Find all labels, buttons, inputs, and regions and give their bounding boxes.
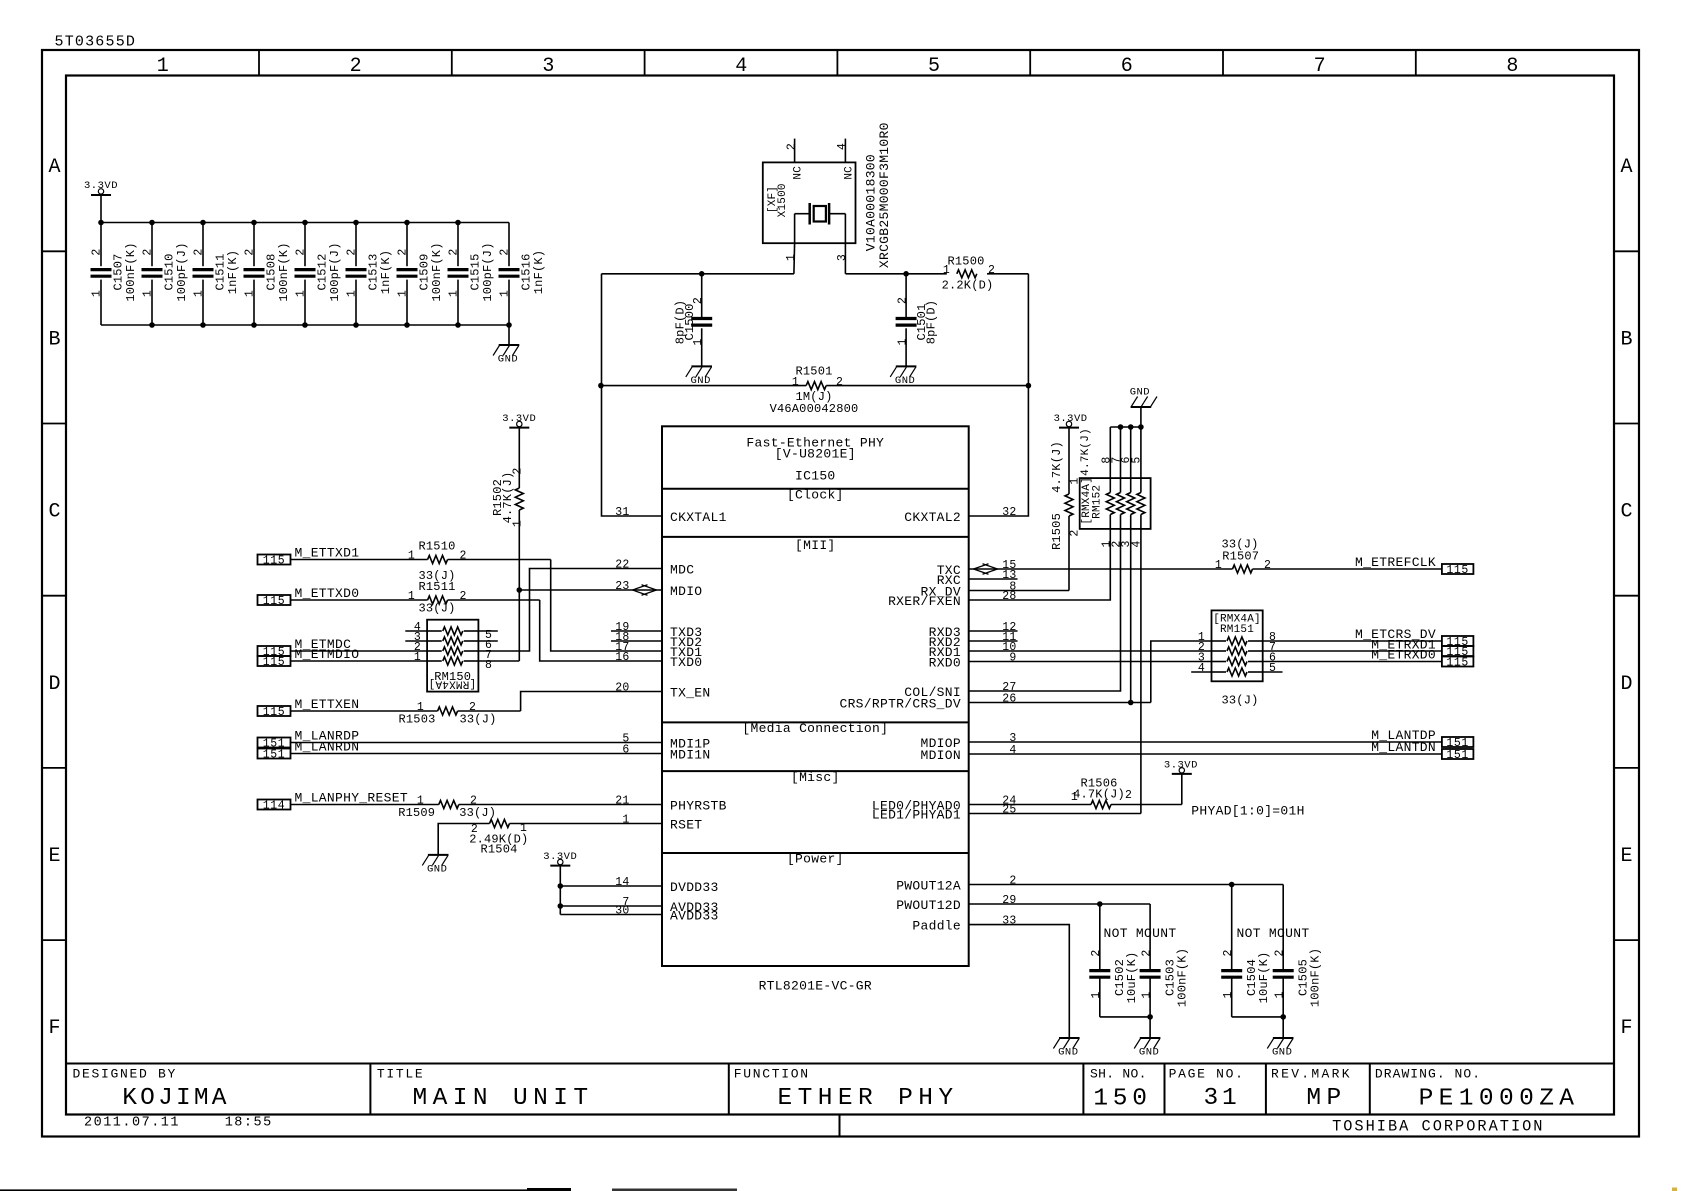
svg-text:31: 31: [1203, 1085, 1240, 1112]
svg-text:CRS/RPTR/CRS_DV: CRS/RPTR/CRS_DV: [839, 697, 961, 712]
resistor R1502: [491, 428, 525, 590]
resistor R1511: [408, 580, 467, 616]
svg-text:RXER/FXEN: RXER/FXEN: [888, 594, 961, 609]
bottom scan artifact: [527, 1188, 571, 1191]
capacitor C1516: [499, 223, 547, 326]
wire RXC stub: [969, 578, 1018, 580]
svg-text:33(J): 33(J): [459, 713, 496, 727]
svg-text:PHYAD[1:0]=01H: PHYAD[1:0]=01H: [1191, 804, 1304, 819]
svg-text:3: 3: [542, 55, 554, 78]
wire crystal bus right (XTAL2 net): [846, 273, 947, 275]
svg-text:MDIO: MDIO: [670, 584, 702, 599]
wire RXD1 to RM151: [969, 650, 1212, 652]
svg-text:1: 1: [1140, 991, 1153, 998]
svg-text:V10A00018300: V10A00018300: [863, 154, 878, 251]
junction dots crystal buses: [598, 271, 1031, 388]
power symbol 3.3VD (R1506): [1172, 773, 1192, 775]
svg-text:C: C: [1620, 501, 1632, 524]
svg-text:2: 2: [1222, 949, 1235, 956]
node M_ETMDC port 115: [258, 646, 291, 656]
svg-text:LED1/PHYAD1: LED1/PHYAD1: [872, 808, 961, 823]
svg-text:4.7K(J): 4.7K(J): [501, 472, 515, 524]
svg-text:KOJIMA: KOJIMA: [122, 1085, 229, 1112]
svg-text:1nF(K): 1nF(K): [532, 250, 546, 294]
svg-text:1: 1: [397, 290, 410, 297]
svg-text:2: 2: [397, 248, 410, 255]
wire RXD2 stub: [969, 640, 1018, 642]
svg-text:NC: NC: [793, 166, 805, 180]
svg-text:R1503: R1503: [398, 713, 435, 727]
capacitor C1513: [346, 223, 394, 326]
wire C1504/C1505 gnd bus: [1232, 1014, 1286, 1038]
svg-text:MDION: MDION: [920, 748, 961, 763]
resistor R1506: [1071, 777, 1132, 809]
svg-text:115: 115: [263, 554, 286, 567]
wire RXD0 to RM151: [969, 661, 1212, 663]
svg-text:GND: GND: [1139, 1047, 1159, 1059]
svg-text:FUNCTION: FUNCTION: [734, 1067, 810, 1082]
svg-text:2: 2: [988, 264, 995, 277]
wire CKXTAL2 net: [969, 274, 1029, 516]
svg-text:6: 6: [622, 744, 629, 757]
svg-text:4.7K(J): 4.7K(J): [1073, 788, 1125, 802]
svg-text:R1505: R1505: [1050, 513, 1064, 550]
node M_LANPHY_RESET port 114: [258, 800, 291, 810]
svg-text:4: 4: [1009, 744, 1016, 757]
svg-text:1: 1: [1273, 991, 1286, 998]
IC150 left pin names: [670, 510, 727, 924]
wire TXD3 stub: [611, 630, 662, 632]
svg-text:D: D: [1620, 673, 1632, 696]
node M_ETTXEN port 115: [258, 706, 291, 716]
row scale ticks left/right: [42, 251, 1639, 940]
bidir diamond MDIO: [633, 585, 648, 596]
svg-text:2: 2: [91, 248, 104, 255]
title block top line: [66, 1063, 1614, 1065]
svg-text:150: 150: [1093, 1086, 1151, 1113]
capacitor C1502: [1089, 904, 1139, 1017]
svg-text:2: 2: [1009, 875, 1016, 888]
svg-text:21: 21: [615, 795, 629, 808]
svg-text:2: 2: [1069, 529, 1082, 536]
svg-text:4.7K(J): 4.7K(J): [1080, 428, 1092, 476]
svg-text:1: 1: [142, 290, 155, 297]
resistor R1500: [942, 255, 996, 293]
resistor R1501: [770, 365, 859, 416]
svg-text:GND: GND: [498, 354, 518, 366]
ground (R1504): [428, 854, 449, 856]
svg-text:D: D: [48, 673, 60, 696]
capacitor C1501: [896, 274, 939, 367]
svg-text:100pF(J): 100pF(J): [481, 242, 495, 301]
capacitor C1503: [1140, 904, 1190, 1017]
svg-text:Paddle: Paddle: [912, 919, 961, 934]
svg-text:3: 3: [836, 254, 849, 261]
svg-text:1: 1: [414, 651, 421, 664]
svg-text:3.3VD: 3.3VD: [1054, 413, 1088, 425]
wire COL/SNI net: [969, 529, 1121, 691]
crystal X1500: [763, 122, 892, 274]
svg-text:1: 1: [295, 290, 308, 297]
svg-text:1: 1: [91, 290, 104, 297]
wire PWOUT12A net: [969, 884, 1283, 886]
svg-text:1: 1: [896, 338, 909, 345]
svg-text:1: 1: [157, 55, 169, 78]
svg-text:8: 8: [1506, 55, 1518, 78]
ground (C1503): [1140, 1037, 1161, 1039]
svg-text:DRAWING. NO.: DRAWING. NO.: [1375, 1067, 1481, 1082]
svg-text:7: 7: [1314, 55, 1326, 78]
svg-text:V46A00042800: V46A00042800: [770, 402, 859, 416]
svg-text:A: A: [48, 156, 60, 179]
wire TXD2 stub: [611, 640, 662, 642]
svg-text:PHYRSTB: PHYRSTB: [670, 799, 727, 814]
svg-text:CKXTAL1: CKXTAL1: [670, 510, 727, 525]
node M_ETMDIO port 115: [258, 656, 291, 666]
svg-text:1: 1: [193, 290, 206, 297]
svg-text:A: A: [1620, 156, 1632, 179]
svg-text:1nF(K): 1nF(K): [379, 250, 393, 294]
wire M_ETTXD0 to TXD0: [291, 599, 428, 601]
svg-text:2: 2: [142, 248, 155, 255]
svg-text:M_ETTXD1: M_ETTXD1: [295, 546, 360, 561]
wire 3.3VD to DVDD33/AVDD33: [558, 866, 663, 915]
capacitor C1508: [244, 223, 292, 326]
resistor network RM152: [1080, 428, 1151, 547]
svg-text:100nF(K): 100nF(K): [277, 242, 291, 301]
svg-text:F: F: [1620, 1017, 1632, 1040]
svg-text:2: 2: [499, 248, 512, 255]
svg-text:2: 2: [193, 248, 206, 255]
svg-text:R1500: R1500: [947, 255, 984, 269]
svg-text:100pF(J): 100pF(J): [175, 242, 189, 301]
svg-text:114: 114: [263, 799, 286, 812]
wire M_LANRDN to MDI1N: [291, 753, 663, 755]
svg-text:DESIGNED BY: DESIGNED BY: [73, 1067, 178, 1082]
svg-text:16: 16: [615, 651, 629, 664]
svg-text:33(J): 33(J): [418, 602, 455, 616]
svg-text:[Clock]: [Clock]: [787, 488, 844, 503]
svg-text:23: 23: [615, 580, 629, 593]
svg-text:R1507: R1507: [1222, 549, 1259, 563]
svg-text:XRCGB25M000F3M10R0: XRCGB25M000F3M10R0: [877, 122, 892, 268]
svg-text:SH. NO.: SH. NO.: [1090, 1067, 1147, 1082]
svg-text:PAGE NO.: PAGE NO.: [1169, 1067, 1245, 1082]
capacitor C1509: [397, 223, 445, 326]
ground (C1501): [896, 365, 917, 367]
wire CRS_DV net: [969, 702, 1151, 704]
wire M_LANRDP to MDI1P: [291, 742, 663, 744]
ground (cap bank): [493, 325, 519, 366]
wire M_ETTXEN to TX_EN: [291, 710, 438, 712]
svg-text:2: 2: [1264, 559, 1271, 572]
wire 3.3VD top bus: [101, 222, 509, 224]
wire MDC net: [478, 569, 662, 652]
svg-text:B: B: [1620, 328, 1632, 351]
svg-text:20: 20: [615, 682, 629, 695]
svg-text:100nF(K): 100nF(K): [1175, 948, 1189, 1007]
svg-text:10uF(K): 10uF(K): [1125, 952, 1139, 1004]
wire M_LANPHY_RESET to PHYRSTB: [291, 804, 439, 806]
svg-text:1: 1: [408, 550, 415, 563]
svg-text:10uF(K): 10uF(K): [1257, 952, 1271, 1004]
svg-text:1: 1: [785, 254, 798, 261]
svg-text:RSET: RSET: [670, 818, 702, 833]
row letters A-F: [48, 156, 1632, 1040]
svg-text:5T03655D: 5T03655D: [55, 34, 137, 51]
svg-text:X1500: X1500: [777, 183, 789, 217]
svg-text:2: 2: [1273, 949, 1286, 956]
wire RM152 top bus to GND: [1110, 407, 1143, 478]
svg-text:GND: GND: [1130, 387, 1150, 399]
svg-text:1: 1: [346, 290, 359, 297]
wire MDIO net: [519, 589, 662, 591]
wire PWOUT12D net: [969, 903, 1150, 905]
svg-text:2: 2: [692, 297, 705, 304]
svg-text:4.7K(J): 4.7K(J): [1050, 441, 1064, 493]
svg-text:E: E: [48, 845, 60, 868]
svg-text:[Power]: [Power]: [787, 852, 844, 867]
svg-text:AVDD33: AVDD33: [670, 909, 719, 924]
wire MDIOP to M_LANTDP: [969, 741, 1442, 743]
svg-text:4: 4: [836, 143, 849, 150]
svg-text:100nF(K): 100nF(K): [430, 242, 444, 301]
svg-text:F: F: [48, 1017, 60, 1040]
svg-text:1: 1: [943, 264, 950, 277]
svg-text:MDC: MDC: [670, 563, 694, 578]
svg-text:PWOUT12D: PWOUT12D: [896, 898, 961, 913]
node M_LANRDP port 151: [258, 738, 291, 748]
svg-text:151: 151: [1446, 749, 1469, 762]
capacitor C1512: [295, 223, 343, 326]
IC150 right pin numbers: [1002, 506, 1016, 928]
svg-text:32: 32: [1002, 506, 1016, 519]
svg-text:33(J): 33(J): [1221, 694, 1258, 708]
wire MDION to M_LANTDN: [969, 753, 1442, 755]
svg-text:115: 115: [263, 595, 286, 608]
node M_ETTXD0 port 115: [258, 595, 291, 605]
svg-text:RXD0: RXD0: [929, 656, 961, 671]
svg-text:5: 5: [1269, 662, 1276, 675]
wire RSET net: [510, 823, 663, 825]
wire C1502/C1503 gnd bus: [1100, 1014, 1153, 1038]
svg-text:2011.07.11: 2011.07.11: [84, 1116, 180, 1131]
svg-text:1: 1: [1071, 791, 1078, 804]
capacitor C1504: [1221, 885, 1271, 1017]
svg-text:MP: MP: [1306, 1085, 1346, 1112]
svg-text:2: 2: [244, 248, 257, 255]
svg-text:100nF(K): 100nF(K): [1308, 948, 1322, 1007]
svg-text:22: 22: [615, 559, 629, 572]
wire M_ETCRS_DV: [1263, 640, 1442, 642]
svg-text:R1511: R1511: [418, 580, 455, 594]
svg-text:PWOUT12A: PWOUT12A: [896, 879, 961, 894]
svg-text:1: 1: [448, 290, 461, 297]
svg-text:NC: NC: [843, 166, 855, 180]
svg-text:[MII]: [MII]: [795, 538, 836, 553]
wire M_ETTXD1 to TXD1: [291, 559, 428, 561]
svg-text:NOT MOUNT: NOT MOUNT: [1237, 926, 1310, 941]
svg-text:100pF(J): 100pF(J): [328, 242, 342, 301]
svg-text:TX_EN: TX_EN: [670, 686, 711, 701]
svg-text:8pF(D): 8pF(D): [925, 300, 939, 344]
svg-text:2: 2: [350, 55, 362, 78]
resistor R1504: [469, 820, 528, 857]
svg-text:GND: GND: [1272, 1047, 1292, 1059]
svg-text:TXD0: TXD0: [670, 655, 702, 670]
svg-text:R1504: R1504: [480, 843, 517, 857]
svg-text:1nF(K): 1nF(K): [226, 250, 240, 294]
svg-text:TITLE: TITLE: [377, 1067, 425, 1082]
ground (C1500): [691, 365, 712, 367]
svg-text:26: 26: [1002, 693, 1016, 706]
resistor R1510: [408, 539, 467, 583]
ground (Paddle): [1059, 1037, 1080, 1039]
capacitor C1511: [193, 223, 241, 326]
wire R1501 bus: [601, 385, 806, 387]
svg-text:4: 4: [735, 55, 747, 78]
svg-text:3.3VD: 3.3VD: [84, 180, 118, 192]
svg-text:3.3VD: 3.3VD: [543, 851, 577, 863]
power symbol 3.3VD (DVDD): [543, 851, 577, 866]
svg-text:DVDD33: DVDD33: [670, 880, 719, 895]
svg-text:33: 33: [1002, 915, 1016, 928]
svg-text:M_ETTXEN: M_ETTXEN: [295, 697, 360, 712]
ground (C1505): [1273, 1037, 1294, 1039]
svg-text:M_LANPHY_RESET: M_LANPHY_RESET: [295, 791, 408, 806]
column scale ticks top: [259, 50, 1416, 76]
svg-text:[V-U8201E]: [V-U8201E]: [775, 447, 856, 462]
capacitor C1510: [142, 223, 190, 326]
capacitor C1507: [91, 223, 139, 326]
svg-text:29: 29: [1002, 894, 1016, 907]
wire M_ETMDC to RM150: [291, 650, 428, 652]
resistor R1507: [1215, 538, 1271, 574]
svg-text:18:55: 18:55: [225, 1116, 273, 1131]
capacitor C1515: [448, 223, 496, 326]
svg-text:33(J): 33(J): [459, 806, 496, 820]
svg-text:1: 1: [499, 290, 512, 297]
svg-text:B: B: [48, 328, 60, 351]
wire TXC net: [969, 568, 1233, 570]
capacitor C1500: [674, 274, 713, 367]
svg-text:TOSHIBA CORPORATION: TOSHIBA CORPORATION: [1332, 1118, 1544, 1136]
resistor R1503: [398, 701, 496, 727]
svg-text:2: 2: [785, 143, 798, 150]
svg-text:NOT MOUNT: NOT MOUNT: [1104, 926, 1177, 941]
svg-text:1: 1: [792, 376, 799, 389]
column numbers 1-8: [157, 55, 1519, 78]
svg-text:2: 2: [896, 297, 909, 304]
svg-text:CKXTAL2: CKXTAL2: [904, 510, 961, 525]
svg-text:PE1000ZA: PE1000ZA: [1419, 1086, 1580, 1113]
title block bottom line: [66, 1114, 1614, 1116]
wire M_ETMDIO to RM150: [291, 660, 428, 662]
svg-text:1: 1: [622, 814, 629, 827]
svg-text:R1510: R1510: [418, 539, 455, 553]
svg-text:IC150: IC150: [795, 469, 836, 484]
svg-text:2.2K(D): 2.2K(D): [942, 279, 994, 293]
svg-text:C1500: C1500: [683, 303, 697, 340]
wire GND bottom bus: [101, 324, 509, 326]
resistor R1505 pullup: [1050, 428, 1082, 591]
svg-text:4: 4: [1198, 662, 1205, 675]
wire Paddle to GND: [969, 925, 1070, 1038]
svg-text:R1501: R1501: [795, 365, 832, 379]
svg-text:E: E: [1620, 845, 1632, 868]
node M_LANRDN port 151: [258, 749, 291, 759]
svg-text:1: 1: [1215, 559, 1222, 572]
svg-text:3.3VD: 3.3VD: [1164, 760, 1198, 772]
svg-text:115: 115: [263, 656, 286, 669]
svg-text:2: 2: [1125, 789, 1132, 802]
svg-text:2: 2: [1090, 949, 1103, 956]
svg-text:2: 2: [448, 248, 461, 255]
power symbol 3.3VD (R1502): [502, 413, 536, 428]
svg-text:REV.MARK: REV.MARK: [1271, 1067, 1352, 1082]
svg-text:[Misc]: [Misc]: [791, 770, 840, 785]
svg-text:115: 115: [263, 706, 286, 719]
wire RXER/FXEN net: [969, 529, 1111, 600]
wire RXD3 stub: [969, 630, 1018, 632]
svg-text:RTL8201E-VC-GR: RTL8201E-VC-GR: [759, 979, 872, 994]
svg-text:100nF(K): 100nF(K): [124, 242, 138, 301]
power symbol 3.3VD (R1505): [1059, 427, 1079, 429]
svg-text:M_ETREFCLK: M_ETREFCLK: [1355, 555, 1436, 570]
svg-text:M_ETRXD0: M_ETRXD0: [1371, 648, 1436, 663]
svg-text:9: 9: [1009, 652, 1016, 665]
bidir diamond TXC: [974, 564, 989, 575]
svg-text:M_ETMDIO: M_ETMDIO: [295, 647, 360, 662]
svg-text:R1509: R1509: [398, 806, 435, 820]
capacitor C1505: [1273, 885, 1323, 1017]
resistor network RM150: [405, 620, 498, 692]
wire LED0/PHYAD0 net: [969, 804, 1091, 806]
svg-text:M_LANRDN: M_LANRDN: [295, 740, 360, 755]
ground (RM152): [1131, 406, 1152, 408]
power symbol 3.3VD (cap bank): [84, 180, 118, 222]
junction dots cap bank: [98, 220, 512, 328]
svg-text:[Media Connection]: [Media Connection]: [742, 721, 888, 736]
svg-text:MAIN UNIT: MAIN UNIT: [413, 1085, 594, 1112]
svg-text:2: 2: [460, 550, 467, 563]
svg-text:[RMX4A]: [RMX4A]: [428, 677, 476, 689]
svg-text:6: 6: [1121, 55, 1133, 78]
svg-text:GND: GND: [1058, 1047, 1078, 1059]
wire M_ETRXD1: [1263, 650, 1442, 652]
svg-text:M_ETTXD0: M_ETTXD0: [295, 586, 360, 601]
wire RX_DV net: [969, 590, 1069, 592]
svg-text:151: 151: [263, 748, 286, 761]
svg-text:25: 25: [1002, 804, 1016, 817]
IC150 left pin numbers: [615, 506, 629, 918]
svg-text:RM152: RM152: [1091, 485, 1103, 519]
svg-text:2: 2: [1140, 949, 1153, 956]
svg-text:5: 5: [928, 55, 940, 78]
svg-text:MDI1N: MDI1N: [670, 748, 711, 763]
svg-text:2: 2: [295, 248, 308, 255]
svg-text:M_LANTDN: M_LANTDN: [1371, 740, 1436, 755]
node M_ETTXD1 port 115: [258, 555, 291, 565]
resistor R1509: [398, 795, 496, 820]
IC150 right pin names: [839, 510, 961, 934]
svg-text:RM151: RM151: [1220, 624, 1254, 636]
svg-text:1: 1: [1090, 991, 1103, 998]
svg-text:GND: GND: [427, 863, 447, 875]
svg-text:1: 1: [1222, 991, 1235, 998]
svg-text:2: 2: [346, 248, 359, 255]
svg-text:2: 2: [836, 376, 843, 389]
